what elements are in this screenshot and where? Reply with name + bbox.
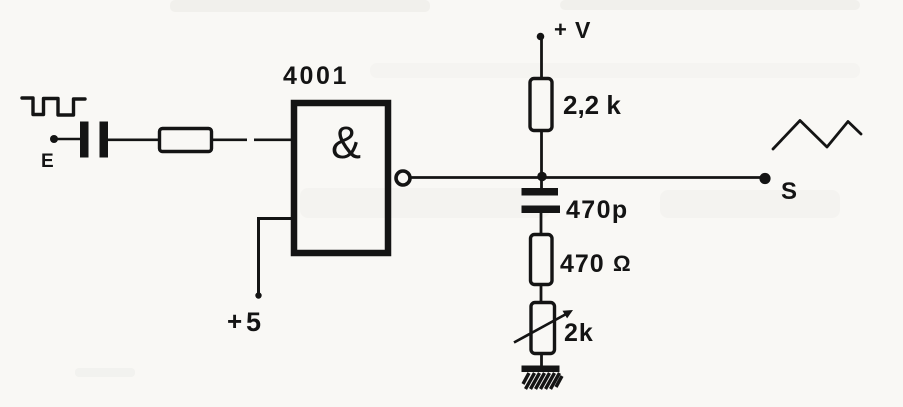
- wire E to C1: [57, 138, 81, 141]
- ground: [522, 366, 563, 390]
- svg-text:E: E: [41, 151, 54, 172]
- svg-text:4001: 4001: [283, 62, 349, 90]
- wire gate output to node S: [410, 176, 762, 179]
- node E: [41, 135, 58, 172]
- wire +5 to gate input 2: [259, 219, 292, 295]
- svg-text:Ω: Ω: [613, 251, 631, 276]
- power +5: [227, 292, 262, 337]
- wire R3 to P1: [540, 284, 543, 303]
- wire R1 to gate input: [212, 139, 292, 142]
- gate U1: [294, 103, 410, 253]
- svg-text:&: &: [331, 117, 361, 168]
- resistor R2 2,2k: [530, 79, 621, 131]
- svg-text:+: +: [227, 306, 242, 336]
- svg-text:2k: 2k: [564, 319, 594, 347]
- capacitor C2 470p: [522, 188, 629, 224]
- svg-text:V: V: [575, 17, 591, 43]
- svg-text:470p: 470p: [566, 196, 629, 224]
- node S: [759, 173, 797, 205]
- wire +V to R2: [540, 38, 543, 78]
- svg-text:S: S: [781, 178, 797, 205]
- capacitor C1: [80, 122, 108, 158]
- resistor R3 470 ohm: [531, 235, 631, 285]
- wire R2 to junction: [540, 130, 543, 188]
- input square-wave symbol: [22, 98, 85, 115]
- resistor R1: [160, 129, 212, 152]
- svg-text:5: 5: [246, 307, 261, 337]
- output triangle-wave symbol: [773, 121, 861, 150]
- svg-text:+: +: [554, 17, 567, 42]
- svg-text:2,2 k: 2,2 k: [563, 90, 621, 120]
- power +V: [537, 17, 591, 43]
- wire P1 to ground: [540, 353, 543, 367]
- svg-text:470: 470: [560, 250, 605, 278]
- wire C1 to R1: [108, 139, 160, 142]
- node junction: [537, 172, 547, 182]
- wire C2 to R3: [540, 213, 543, 235]
- potentiometer P1 2k: [514, 303, 594, 354]
